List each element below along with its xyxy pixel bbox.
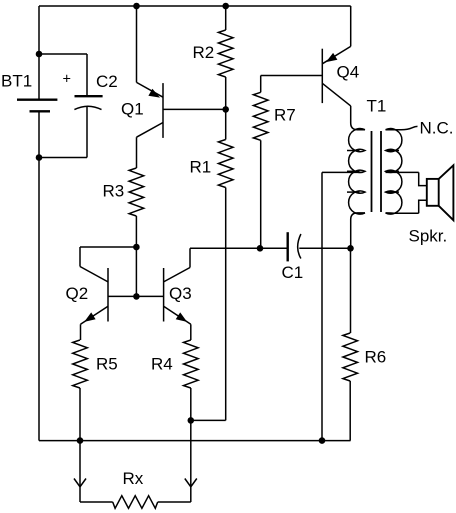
- svg-text:R6: R6: [365, 348, 387, 367]
- svg-text:N.C.: N.C.: [420, 119, 454, 138]
- svg-text:Q3: Q3: [169, 284, 192, 303]
- svg-text:Q2: Q2: [66, 284, 89, 303]
- svg-text:R2: R2: [193, 43, 215, 62]
- svg-text:Spkr.: Spkr.: [409, 227, 448, 246]
- svg-text:+: +: [63, 72, 71, 88]
- svg-text:R3: R3: [103, 182, 125, 201]
- svg-text:BT1: BT1: [1, 72, 32, 91]
- svg-text:T1: T1: [367, 97, 387, 116]
- svg-text:Q4: Q4: [337, 63, 360, 82]
- svg-text:C1: C1: [282, 263, 304, 282]
- svg-text:R1: R1: [190, 158, 212, 177]
- svg-text:C2: C2: [96, 72, 118, 91]
- svg-text:R4: R4: [151, 355, 173, 374]
- svg-text:R5: R5: [96, 355, 118, 374]
- svg-text:R7: R7: [274, 106, 296, 125]
- svg-text:Rx: Rx: [123, 469, 144, 488]
- svg-text:Q1: Q1: [121, 100, 144, 119]
